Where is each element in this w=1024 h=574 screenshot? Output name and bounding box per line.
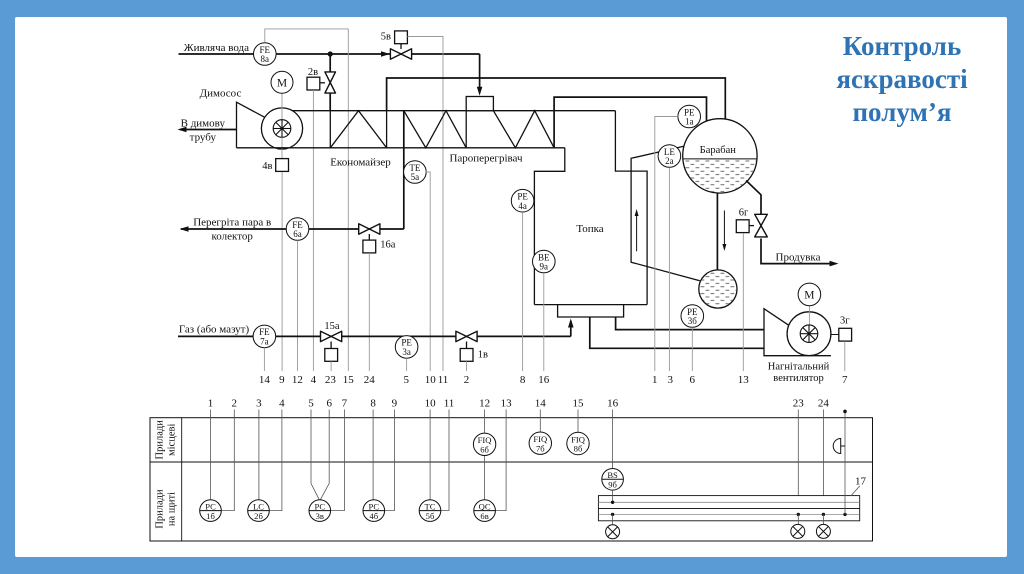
economizer coil <box>329 111 331 148</box>
lower drum shell <box>699 270 737 308</box>
svg-text:9: 9 <box>392 398 398 410</box>
column line 4 <box>270 410 282 511</box>
forced draft fan wheel <box>787 312 831 356</box>
svg-text:3: 3 <box>256 398 262 410</box>
svg-text:12: 12 <box>292 374 303 386</box>
superheater coil 1 <box>404 111 466 148</box>
svg-text:9а: 9а <box>540 262 549 272</box>
pipe: fuel gas line <box>178 335 571 337</box>
shutoff valve 1в body <box>456 331 477 341</box>
pipe: feed water to economizer header with arrow <box>479 54 481 93</box>
svg-text:5: 5 <box>404 374 410 386</box>
control valve 15a actuator box <box>325 349 338 362</box>
svg-text:15а: 15а <box>324 321 340 332</box>
control valve 5в actuator stem <box>400 44 402 49</box>
svg-text:15: 15 <box>343 374 355 386</box>
signal line 12 (FE 6a to FIQ 6б) <box>297 240 299 371</box>
svg-text:5: 5 <box>308 398 314 410</box>
instrument FE 7a (gas flow element) <box>253 325 276 348</box>
svg-text:8а: 8а <box>261 54 270 64</box>
svg-text:16: 16 <box>607 398 619 410</box>
instrument PE 4a (furnace draft) <box>511 189 534 212</box>
drum water fill <box>682 159 758 195</box>
superheater coil 2 <box>493 111 554 148</box>
svg-text:2в: 2в <box>308 67 318 78</box>
node on bus a (col 16) <box>611 501 614 504</box>
svg-text:16: 16 <box>538 374 550 386</box>
valve 2в actuator box <box>307 77 320 90</box>
svg-text:24: 24 <box>364 374 376 386</box>
svg-text:Димосос: Димосос <box>200 88 242 100</box>
control valve 16a actuator box <box>363 240 376 253</box>
svg-text:15: 15 <box>573 398 585 410</box>
forced draft fan hub with spokes <box>800 325 818 343</box>
signal line 15 (FE 8a to FIQ 8б) <box>265 29 349 371</box>
column line 6 <box>320 410 329 500</box>
svg-text:6: 6 <box>690 374 696 386</box>
column line 8 <box>372 410 374 500</box>
svg-text:Перегріта пара в: Перегріта пара в <box>193 217 271 229</box>
svg-text:24: 24 <box>818 398 830 410</box>
blowdown valve 6г body (vertical) <box>755 214 768 237</box>
signal bus bar outline (17) <box>598 496 859 521</box>
bus inner line b <box>598 508 859 510</box>
svg-text:2а: 2а <box>665 156 674 166</box>
control valve 16a actuator stem <box>368 234 370 240</box>
instrument TC 5б (panel) <box>419 500 441 522</box>
signal line 6 (PE 3б to PC 3в) <box>691 327 693 371</box>
svg-text:Прилади: Прилади <box>155 489 166 529</box>
svg-text:місцеві: місцеві <box>167 424 178 456</box>
instrument PE 3a (gas pressure) <box>395 336 418 359</box>
svg-text:4: 4 <box>311 374 317 386</box>
svg-text:9б: 9б <box>608 480 617 490</box>
svg-text:7: 7 <box>842 374 848 386</box>
lamp stub (col 24) <box>822 514 824 524</box>
svg-text:14: 14 <box>259 374 271 386</box>
svg-text:3а: 3а <box>402 347 411 357</box>
column line 1 <box>210 410 212 500</box>
svg-text:Живляча вода: Живляча вода <box>184 42 249 54</box>
pipe: economizer outlet to drum <box>387 78 726 120</box>
flue duct bottom wall <box>237 147 565 149</box>
svg-text:6б: 6б <box>480 445 489 455</box>
alarm bell (horn) <box>833 439 841 454</box>
table outline <box>150 418 873 541</box>
instrument BS 9б (panel) <box>602 469 624 491</box>
valve 6г actuator box <box>736 220 749 233</box>
column line 11 <box>441 410 449 511</box>
signal line 2 (valve 1в to PC 1б) <box>466 361 468 371</box>
lamp stub (col 23) <box>797 514 799 524</box>
motor link line (M to fan 2) <box>808 306 810 334</box>
bus inner line c <box>598 513 859 515</box>
svg-text:17: 17 <box>855 476 867 488</box>
svg-text:7а: 7а <box>260 337 269 347</box>
valve 2в actuator stem <box>320 82 325 84</box>
svg-text:9: 9 <box>279 374 285 386</box>
svg-text:23: 23 <box>325 374 337 386</box>
pipe: feed water branch down to valve 2в <box>329 54 331 72</box>
instrument TE 5a (flue temperature) <box>404 161 427 184</box>
column line 14 <box>539 410 541 433</box>
forced draft fan casing <box>764 309 831 356</box>
actuator stem fan to box 4в <box>281 137 283 158</box>
economizer inlet header box <box>466 97 493 111</box>
svg-text:23: 23 <box>793 398 805 410</box>
instrument PC 3в (panel) <box>309 500 331 522</box>
column line 15 <box>577 410 579 433</box>
svg-text:1: 1 <box>208 398 214 410</box>
table label column divider <box>181 418 183 541</box>
svg-text:6г: 6г <box>739 207 749 218</box>
svg-text:5в: 5в <box>381 32 391 43</box>
svg-text:Пароперегрівач: Пароперегрівач <box>449 153 523 165</box>
column line 7 <box>331 410 345 511</box>
link fan to actuator 3г <box>831 334 839 336</box>
pipe: superheater outlet downcomer <box>403 111 405 229</box>
svg-text:4: 4 <box>279 398 285 410</box>
flow arrow on feed water line <box>381 51 390 57</box>
svg-text:трубу: трубу <box>190 132 217 144</box>
node: feed water junction <box>328 51 333 56</box>
signal line 10 (TE 5a to TC 5б) <box>426 172 430 371</box>
svg-text:4б: 4б <box>369 511 378 521</box>
svg-text:1в: 1в <box>478 349 488 360</box>
signal line 3 (LE 2a to LC 2б) <box>668 168 670 372</box>
signal line 16 (BE 9a to BS 9б) <box>543 273 545 371</box>
column line 12 <box>484 410 486 434</box>
lamp stub (col 16) <box>612 514 614 524</box>
svg-text:2: 2 <box>464 374 470 386</box>
svg-text:3в: 3в <box>316 511 324 521</box>
column line 16 <box>612 410 614 469</box>
svg-text:Барабан: Барабан <box>700 145 737 156</box>
pipe: feed water main line <box>179 53 480 55</box>
svg-text:11: 11 <box>444 398 455 410</box>
column line 2 <box>222 410 235 511</box>
valve 1в actuator stem <box>466 342 468 349</box>
signal lamp (col 16) <box>606 525 620 539</box>
svg-text:М: М <box>277 78 287 90</box>
motor M of smoke exhauster <box>271 71 293 93</box>
svg-text:12: 12 <box>479 398 490 410</box>
svg-text:колектор: колектор <box>212 231 254 243</box>
svg-text:1а: 1а <box>685 117 694 127</box>
instrument FIQ 8б (local) <box>567 432 589 454</box>
column line 10 <box>429 410 431 500</box>
pipe: blowdown from drum <box>746 181 761 215</box>
control valve 15a body <box>321 331 342 341</box>
column line 9 <box>385 410 395 511</box>
svg-text:10: 10 <box>425 398 437 410</box>
furnace right upper wall <box>615 111 647 305</box>
flow arrow down in downcomer <box>723 211 725 249</box>
column line 23 <box>797 410 799 515</box>
motor link line (M to fan) <box>281 94 283 129</box>
signal line 23 (valve 15a) <box>330 361 332 371</box>
valve 2в body (vertical) <box>325 72 336 93</box>
column line 13 <box>496 410 507 511</box>
burner box <box>558 305 624 317</box>
svg-text:Топка: Топка <box>576 223 603 235</box>
control valve 15a actuator stem <box>330 342 332 349</box>
svg-text:вентилятор: вентилятор <box>773 373 823 384</box>
column line 3 <box>258 410 260 500</box>
control valve 16a body <box>359 224 380 234</box>
air duct to burner (upper) <box>616 317 764 330</box>
signal line 1 (PE 1a to PC 1б) <box>655 117 678 372</box>
furnace left wall <box>534 148 564 305</box>
label 17 with leader <box>851 486 860 496</box>
svg-text:13: 13 <box>501 398 513 410</box>
instrument FE 6a (steam flow element) <box>286 218 309 241</box>
svg-text:4а: 4а <box>518 201 527 211</box>
svg-text:Газ (або мазут): Газ (або мазут) <box>179 323 250 335</box>
control valve 5в actuator box <box>395 31 408 44</box>
downcomer pipe <box>716 193 718 271</box>
instrument LE 2a (drum level) <box>658 145 681 168</box>
instrument FIQ 6б (local) <box>473 433 495 455</box>
pipe: blowdown outlet with arrow <box>761 239 836 264</box>
svg-text:3г: 3г <box>840 316 850 327</box>
smoke exhauster fan casing <box>237 102 265 148</box>
svg-text:Економайзер: Економайзер <box>330 157 391 169</box>
valve 1в actuator box <box>460 349 473 362</box>
instrument FE 8a (feed water flow element) <box>253 43 276 66</box>
flue duct top wall <box>292 110 615 112</box>
instrument LC 2б (panel) <box>248 500 270 522</box>
svg-text:10: 10 <box>425 374 437 386</box>
alarm supply line with node <box>844 411 846 514</box>
svg-text:5а: 5а <box>411 172 420 182</box>
svg-text:11: 11 <box>438 374 449 386</box>
lower drum water fill <box>698 270 738 309</box>
svg-text:2б: 2б <box>254 511 263 521</box>
column line 24 <box>822 410 824 515</box>
svg-text:7б: 7б <box>536 443 545 453</box>
guide vane actuator box 4в <box>276 159 289 172</box>
furnace bottom <box>534 304 647 306</box>
svg-text:1: 1 <box>652 374 658 386</box>
valve 6г actuator stem <box>749 225 754 227</box>
signal line 11 (valve 5в to TC 5б) <box>407 37 443 372</box>
smoke exhauster fan hub with spokes <box>273 120 291 138</box>
signal lamp (col 24) <box>816 524 830 538</box>
control valve 5в body <box>390 49 411 59</box>
svg-text:6а: 6а <box>293 229 302 239</box>
instrument PE 1a (drum pressure) <box>678 105 701 128</box>
svg-text:3: 3 <box>668 374 674 386</box>
svg-text:6в: 6в <box>480 511 488 521</box>
vane actuator box 3г <box>839 328 852 341</box>
svg-text:1б: 1б <box>206 511 215 521</box>
pipe: saturated steam drum to superheater <box>554 97 706 148</box>
signal lamp (col 23) <box>791 524 805 538</box>
svg-text:2: 2 <box>232 398 238 410</box>
signal line 13 (valve 6г) <box>742 233 744 371</box>
svg-text:6: 6 <box>326 398 332 410</box>
riser channel wall <box>631 146 700 281</box>
signal line 8 (PE 4a to PC 4б) <box>522 212 524 371</box>
drum water level line <box>683 158 756 160</box>
motor M of forced draft fan <box>798 283 821 306</box>
pipe: superheated steam to collector with arrow <box>181 228 404 230</box>
link BS 9б to bus <box>612 490 614 502</box>
node on bus c (col 16) <box>611 513 614 516</box>
svg-text:Прилади: Прилади <box>155 420 166 460</box>
instrument QC 6в (panel) <box>474 500 496 522</box>
svg-text:на щиті: на щиті <box>167 492 178 526</box>
signal line 5 (PE 3a to PC 3в) <box>406 358 408 371</box>
svg-text:М: М <box>804 290 814 302</box>
pipe: flue gas to chimney with arrow <box>180 129 237 131</box>
signal line 7 (actuator 3г) <box>844 341 846 371</box>
instrument PC 4б (panel) <box>363 500 385 522</box>
column line 5 <box>311 410 319 500</box>
svg-text:8: 8 <box>370 398 376 410</box>
svg-text:8: 8 <box>520 374 526 386</box>
node on bus c (col 24) <box>822 513 825 516</box>
svg-text:7: 7 <box>342 398 348 410</box>
smoke exhauster fan wheel <box>261 108 302 149</box>
instrument FIQ 7б (local) <box>529 432 551 454</box>
signal line 9 (damper 4в to PC 4б) <box>281 172 283 371</box>
svg-text:3б: 3б <box>688 316 698 326</box>
instrument BE 9a (flame brightness sensor) <box>533 250 556 273</box>
air duct to burner (lower) <box>590 317 764 348</box>
svg-text:14: 14 <box>535 398 547 410</box>
svg-text:Нагнітальний: Нагнітальний <box>768 362 830 373</box>
svg-text:5б: 5б <box>426 511 435 521</box>
bus inner line a <box>598 501 859 503</box>
instrument PE 3б (air pressure) <box>681 305 704 328</box>
svg-text:16а: 16а <box>380 239 396 250</box>
signal line 14 (FE 7a to FIQ 7б) <box>263 348 265 371</box>
svg-text:В димову: В димову <box>181 118 226 130</box>
instrument PC 1б (panel) <box>200 500 222 522</box>
flow arrow up in riser <box>636 212 638 252</box>
drum shell (Барабан) <box>683 119 757 193</box>
signal line 4 (valve 2в to LC 2б) <box>312 90 314 371</box>
svg-text:8б: 8б <box>574 444 583 454</box>
pipe: gas riser to burner with arrow <box>570 321 572 336</box>
svg-text:4в: 4в <box>262 161 272 172</box>
svg-text:13: 13 <box>738 374 750 386</box>
svg-text:Продувка: Продувка <box>776 251 821 263</box>
signal line 24 (valve 16a) <box>368 253 370 371</box>
table row divider <box>150 461 873 463</box>
node on bus c (alarm line) <box>843 513 846 516</box>
node on bus c (col 23) <box>797 513 800 516</box>
